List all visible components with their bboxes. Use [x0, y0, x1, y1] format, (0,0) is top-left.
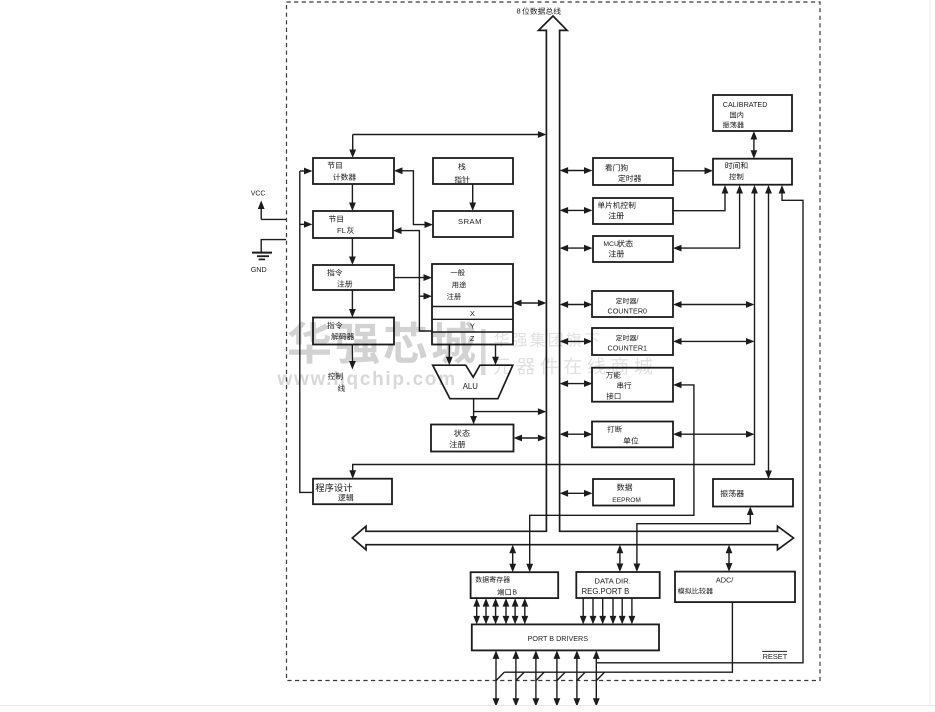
svg-text:/: / [637, 298, 639, 305]
svg-text:/: / [637, 335, 639, 342]
svg-text:COUNTER0: COUNTER0 [608, 306, 648, 315]
svg-text:X: X [470, 309, 475, 318]
svg-text:COUNTER1: COUNTER1 [608, 343, 648, 352]
svg-text:8: 8 [517, 7, 521, 16]
svg-text:www.hqchip.com: www.hqchip.com [277, 369, 457, 390]
svg-text:REG.PORT B: REG.PORT B [582, 587, 630, 596]
svg-text:ALU: ALU [463, 382, 479, 391]
svg-text:DATA DIR.: DATA DIR. [594, 577, 630, 586]
svg-text:MCU: MCU [603, 241, 619, 248]
svg-text:ADC/: ADC/ [716, 576, 734, 585]
svg-text:EEPROM: EEPROM [612, 497, 641, 504]
svg-text:RESET: RESET [763, 652, 788, 661]
svg-text:CALIBRATED: CALIBRATED [723, 100, 768, 109]
svg-text:GND: GND [251, 265, 267, 274]
svg-text:VCC: VCC [251, 191, 266, 198]
svg-text:SRAM: SRAM [458, 217, 482, 226]
svg-text:FL: FL [337, 226, 346, 235]
svg-text:B: B [512, 590, 517, 597]
svg-text:PORT B DRIVERS: PORT B DRIVERS [528, 634, 589, 643]
